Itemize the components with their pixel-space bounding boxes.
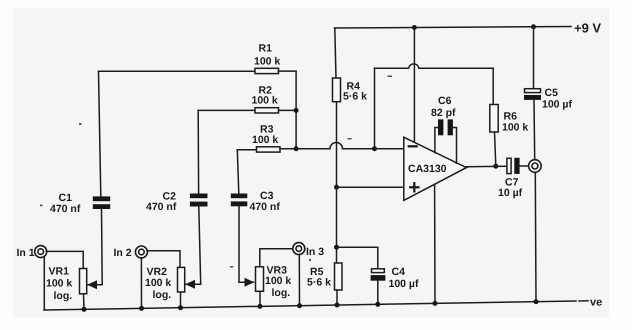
wire: op-amp V- pin to rail <box>434 185 436 303</box>
resistor R2 <box>255 108 279 113</box>
svg-text:100 k: 100 k <box>145 277 171 289</box>
wiper arrow VR3 <box>248 281 254 283</box>
wire: VR3 bottom to rail <box>259 291 261 306</box>
potentiometer VR3 <box>256 267 264 292</box>
wire: C3 to VR3 wiper <box>239 206 250 282</box>
junction dot R5/rail <box>335 303 340 308</box>
svg-text:100 µf: 100 µf <box>542 98 572 110</box>
wire: R6 to output node <box>495 132 496 166</box>
wire: +9V rail <box>335 27 572 29</box>
junction dot In3/rail <box>297 303 302 308</box>
junction dot output gnd/rail <box>534 299 539 304</box>
wire: feedback right vertical to R6 <box>492 68 494 104</box>
svg-text:470 nf: 470 nf <box>146 201 177 213</box>
wire: -ve ground rail <box>44 301 576 310</box>
wire: R4 to bias node <box>336 102 338 188</box>
wire: VR2 bottom to rail <box>180 292 182 308</box>
junction dot R2/summing <box>294 108 299 113</box>
wire: C1 to VR1 wiper <box>92 209 103 285</box>
junction dot C4 branch <box>334 245 339 250</box>
node -ve label <box>579 300 588 302</box>
svg-text:470 nf: 470 nf <box>250 201 281 213</box>
svg-text:C5: C5 <box>545 87 559 99</box>
connector output <box>529 160 542 173</box>
capacitor C3 <box>231 194 248 207</box>
junction dot VR1/rail <box>82 307 87 312</box>
svg-text:R1: R1 <box>259 43 273 55</box>
svg-text:100 k: 100 k <box>252 134 278 146</box>
potentiometer VR1 <box>80 269 87 294</box>
wire: inverting input line with hop over R4 line <box>280 143 403 149</box>
svg-text:In 1: In 1 <box>17 247 35 259</box>
svg-text:VR1: VR1 <box>49 266 70 278</box>
svg-text:ve: ve <box>590 297 602 309</box>
capacitor C6 plates <box>438 119 453 135</box>
junction dot +9V/C5 <box>531 24 536 29</box>
svg-text:100 k: 100 k <box>254 56 280 68</box>
wire: C7 to output connector <box>520 165 529 167</box>
potentiometer VR2 <box>178 267 185 292</box>
capacitor C4 electrolytic <box>372 269 385 273</box>
svg-text:470 nf: 470 nf <box>50 203 81 215</box>
wire: C6 right lead to op-amp edge <box>453 128 457 164</box>
wire: feedback left vertical <box>374 68 376 148</box>
wire: C6 left lead to op-amp edge <box>435 128 438 153</box>
wire: R2 right to summing line <box>279 109 297 111</box>
wire: C5 from +9V <box>533 27 535 89</box>
svg-text:In 2: In 2 <box>114 247 132 259</box>
svg-text:10 µf: 10 µf <box>498 187 523 199</box>
wire: branch to C4 <box>337 247 378 268</box>
svg-text:100 k: 100 k <box>46 278 72 290</box>
svg-text:log.: log. <box>153 289 172 301</box>
junction dot In2/rail <box>139 306 144 311</box>
wire: In2 ground <box>140 258 142 309</box>
svg-text:log.: log. <box>54 290 73 302</box>
svg-text:5·6 k: 5·6 k <box>343 91 367 103</box>
wire: V+ supply to op-amp <box>413 28 415 143</box>
junction dot VR3/rail <box>258 304 263 309</box>
junction dot V-/rail <box>433 301 438 306</box>
junction dot feedback/inverting <box>372 146 377 151</box>
capacitor C5 electrolytic <box>525 89 541 93</box>
wire: VR1 bottom to rail <box>83 294 86 310</box>
connector In1 <box>35 246 47 258</box>
wire: R1 right to summing line <box>279 71 297 149</box>
wire: R2 left from C2 chain <box>198 109 255 111</box>
resistor R5 <box>335 263 343 290</box>
wire: C4 to rail <box>377 281 379 304</box>
svg-text:+9 V: +9 V <box>574 21 601 36</box>
wiper arrow VR2 <box>186 283 190 285</box>
junction dot C4/rail <box>375 302 380 307</box>
wire: In3 ground <box>298 254 300 305</box>
wire: bias node down to C4 branch <box>336 187 338 263</box>
svg-text:In 3: In 3 <box>306 246 324 258</box>
wire: In2 tip to VR2 top <box>147 251 180 268</box>
resistor R3 <box>257 147 281 152</box>
op-amp U1 CA3130 <box>404 137 467 200</box>
node +9V label <box>574 21 601 36</box>
wire: C5 down to output connector ring <box>533 100 536 160</box>
wire: In1 ground <box>43 257 45 311</box>
wire: In1 tip to VR1 top <box>46 251 83 268</box>
connector In3 <box>293 243 305 255</box>
svg-text:82 pf: 82 pf <box>431 107 456 119</box>
wire: feedback top with hop over V+ feed <box>375 64 494 68</box>
junction dot summing node <box>294 146 299 151</box>
wiper arrow VR1 <box>88 284 92 286</box>
wire: C2 to VR2 wiper <box>190 207 201 285</box>
junction dot VR2/rail <box>178 305 183 310</box>
capacitor C1 <box>93 196 110 209</box>
wire: R1 left from C1 chain <box>99 70 256 72</box>
svg-text:100 k: 100 k <box>502 122 528 134</box>
scan speck marks <box>40 76 392 268</box>
svg-text:VR2: VR2 <box>147 266 168 278</box>
resistor R6 <box>490 105 498 133</box>
wire: +9V down to R4 <box>335 28 336 78</box>
wire: R5 to rail <box>336 290 338 305</box>
wire: output connector ground to rail <box>534 172 537 302</box>
capacitor C2 <box>190 194 208 207</box>
junction dot +9V/V+ feed <box>412 25 417 30</box>
wire: non-inverting input <box>337 186 404 188</box>
junction dot bias node <box>334 185 339 190</box>
svg-text:C6: C6 <box>438 95 452 107</box>
wire: C2 chain vertical upper <box>197 110 199 193</box>
wire: op-amp output to C7 <box>466 165 506 168</box>
svg-text:CA3130: CA3130 <box>408 163 447 175</box>
svg-text:C4: C4 <box>392 266 406 278</box>
wire: C1 chain vertical upper <box>99 71 101 196</box>
svg-text:100 k: 100 k <box>265 275 291 287</box>
wire: R3 left from C3 chain <box>237 149 256 151</box>
svg-text:5·6 k: 5·6 k <box>307 277 331 289</box>
svg-text:100 µf: 100 µf <box>389 278 419 290</box>
capacitor C7 electrolytic <box>507 158 511 173</box>
resistor R4 <box>333 78 341 102</box>
svg-text:100 k: 100 k <box>252 95 278 107</box>
connector In2 <box>135 246 147 258</box>
wire: VR3 top to In3 <box>260 249 293 267</box>
resistor R1 <box>255 68 279 73</box>
junction dot output node <box>493 164 498 169</box>
wire: C3 chain vertical upper <box>237 150 239 194</box>
svg-text:log.: log. <box>272 287 291 299</box>
svg-text:R6: R6 <box>504 110 518 122</box>
